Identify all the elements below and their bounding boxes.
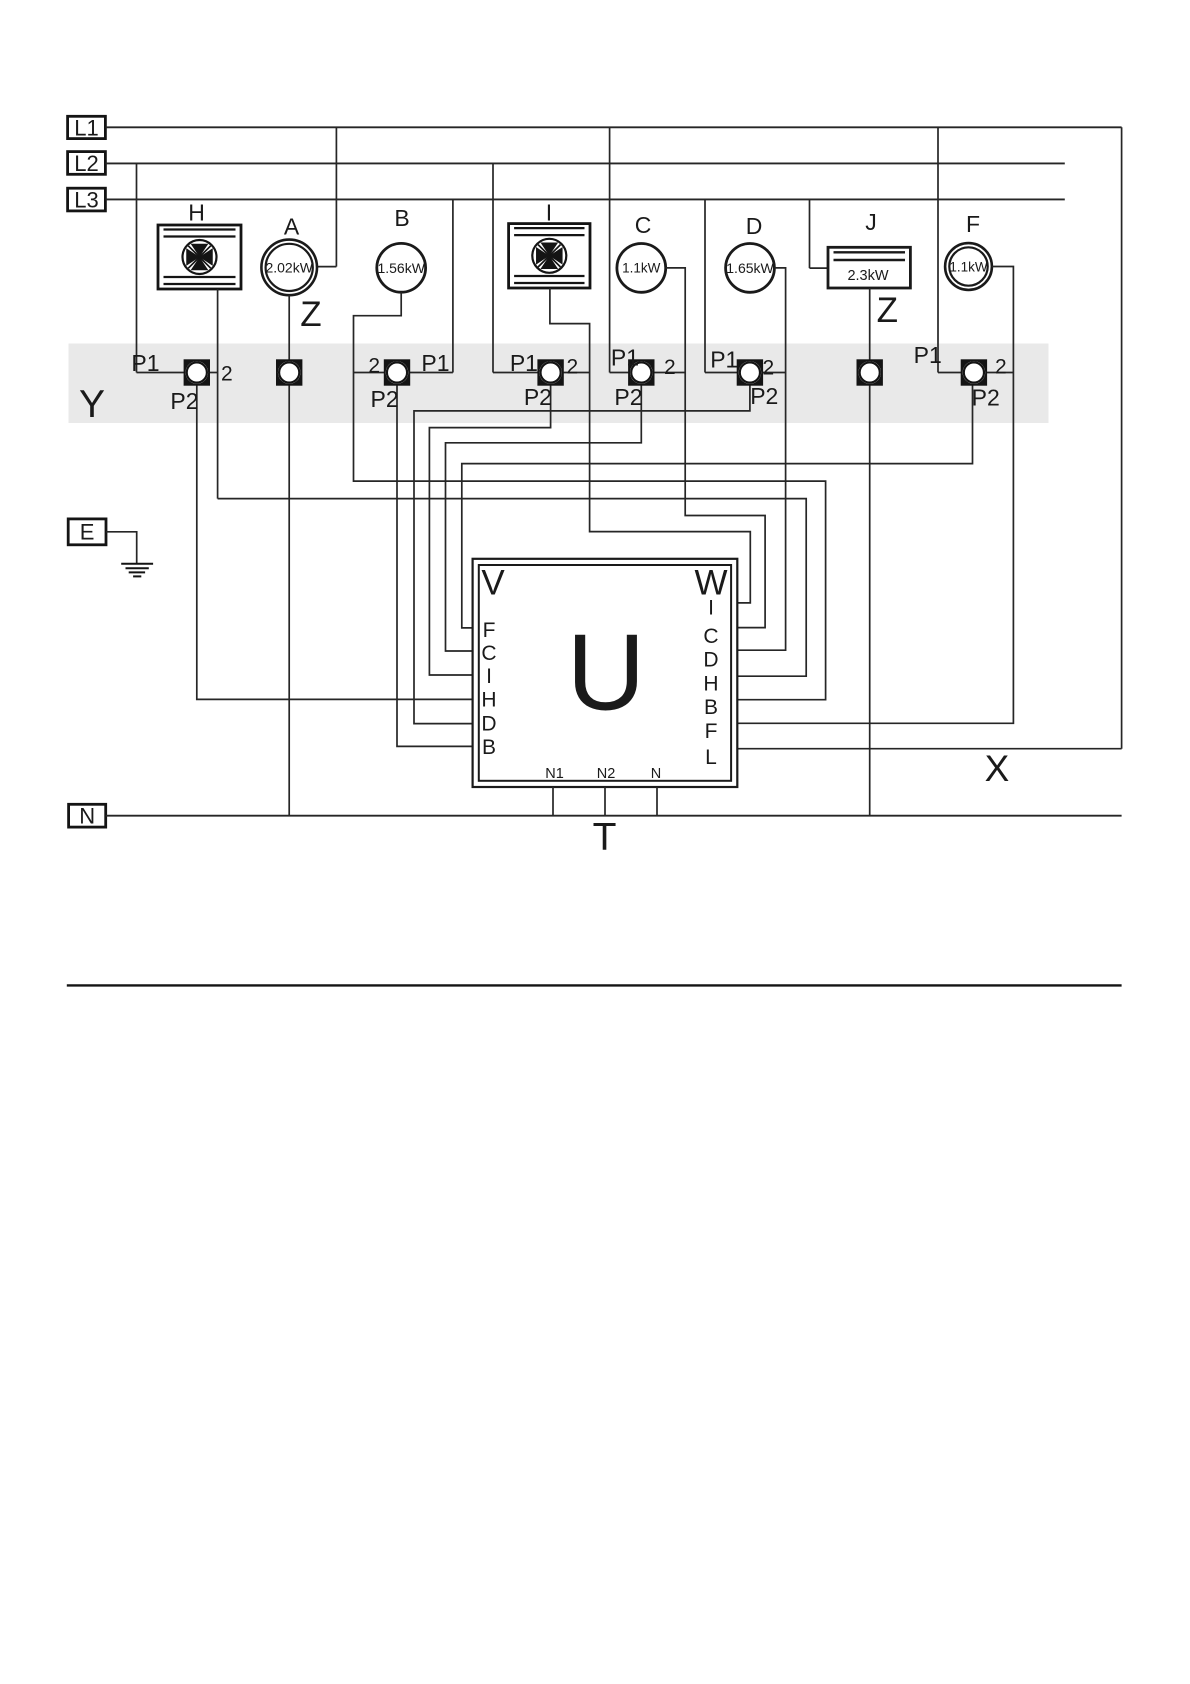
control unit U (timer/selector) (473, 559, 738, 787)
svg-text:P1: P1 (131, 350, 159, 376)
ground symbol (121, 564, 153, 577)
wire I load to U terminal I right (550, 288, 750, 603)
svg-text:N: N (651, 766, 661, 782)
wire C P2 to U terminal C left (446, 386, 642, 652)
svg-text:X: X (985, 748, 1010, 789)
wire H load to U terminal H right (218, 499, 807, 677)
wire B P2 to U terminal B left (397, 386, 473, 747)
heater B 1.56kW (377, 243, 426, 292)
switch contact C (628, 359, 654, 385)
svg-text:A: A (284, 214, 300, 240)
svg-text:1.56kW: 1.56kW (377, 260, 425, 276)
wire B load to U terminal B right (354, 292, 826, 700)
wire E to ground (106, 532, 137, 564)
wire C switch terminal 2 stub (654, 372, 685, 374)
svg-text:C: C (703, 625, 718, 648)
wire L3 to B switch P1 (452, 199, 454, 372)
svg-text:1.65kW: 1.65kW (726, 260, 774, 276)
heater A 2.02kW (261, 240, 317, 296)
wire D P2 to U terminal D left (414, 386, 750, 724)
svg-text:P1: P1 (421, 350, 449, 376)
svg-text:U: U (567, 611, 646, 733)
switch contact J (857, 359, 883, 385)
svg-text:F: F (966, 211, 980, 237)
svg-text:P2: P2 (614, 384, 642, 410)
svg-text:I: I (486, 665, 492, 688)
wire L1 to F switch P1 (937, 127, 939, 372)
svg-text:B: B (394, 205, 409, 231)
svg-text:P1: P1 (611, 345, 639, 371)
wire N2 to N rail (604, 787, 606, 816)
svg-text:J: J (865, 209, 877, 235)
wire D switch terminal 2 stub (763, 372, 786, 374)
switch contact B (384, 359, 410, 385)
svg-text:Z: Z (300, 295, 321, 334)
svg-text:L2: L2 (74, 151, 98, 176)
svg-text:P1: P1 (914, 342, 942, 368)
terminal box N (69, 804, 106, 829)
fan blades H (183, 240, 217, 274)
svg-text:P2: P2 (371, 386, 399, 412)
svg-text:L3: L3 (74, 187, 98, 212)
switch contact I (537, 359, 563, 385)
wire into U terminal L (737, 748, 1121, 750)
wire F switch terminal 2 stub (987, 372, 1014, 374)
svg-text:H: H (703, 673, 718, 696)
fan blades I (532, 239, 566, 273)
wire A to switch (288, 295, 290, 359)
rail L1 (105, 126, 1121, 128)
svg-text:H: H (188, 200, 205, 226)
svg-text:2: 2 (995, 356, 1007, 379)
wire into I switch P1 (493, 372, 538, 374)
svg-text:P2: P2 (524, 384, 552, 410)
svg-text:1.1kW: 1.1kW (622, 261, 661, 276)
rail N (106, 815, 1122, 817)
terminal box L3 (68, 187, 106, 212)
wire D load to U terminal D right (737, 268, 785, 650)
svg-text:I: I (708, 597, 714, 620)
wire L3 to D switch P1 (704, 199, 706, 372)
wire H P2 to U terminal H left (197, 386, 473, 700)
svg-text:P2: P2 (750, 383, 778, 409)
wire B switch terminal 2 stub (354, 372, 385, 374)
wire L2 to I switch P1 (492, 163, 494, 372)
wire into F switch P1 (938, 372, 961, 374)
wire into H switch P1 (137, 372, 185, 374)
terminal box E (68, 519, 106, 545)
wire into B switch P1 (410, 372, 453, 374)
separator rule (67, 984, 1122, 986)
svg-text:P1: P1 (710, 347, 738, 373)
svg-text:D: D (703, 649, 718, 672)
wire L1 right end down to X/L (1121, 127, 1123, 748)
svg-text:C: C (635, 212, 652, 238)
wire into C switch P1 (610, 372, 629, 374)
wire I P2 to U terminal I left (429, 386, 550, 676)
svg-text:N2: N2 (597, 766, 616, 782)
switch contact H (184, 359, 210, 385)
svg-text:P1: P1 (510, 350, 538, 376)
svg-text:N: N (79, 804, 95, 829)
svg-text:H: H (481, 689, 496, 712)
wire L1 down to A (335, 127, 337, 266)
svg-text:P2: P2 (170, 388, 198, 414)
selector band Y background (69, 344, 1049, 424)
heater D 1.65kW (726, 244, 775, 293)
wire L1 to C switch P1 (609, 127, 611, 372)
switch contact A (276, 359, 302, 385)
switch contact F (961, 359, 987, 385)
heater J 2.3kW (828, 247, 910, 288)
heater F 1.1kW (945, 243, 992, 290)
svg-text:D: D (746, 213, 763, 239)
svg-text:E: E (80, 520, 95, 545)
wire C load to U terminal C right (666, 268, 765, 628)
svg-text:2: 2 (221, 363, 233, 386)
wire H switch terminal 2 stub (210, 372, 218, 374)
wire J to switch (869, 288, 871, 360)
terminal box L1 (68, 115, 106, 140)
wire F load to U terminal F right (737, 267, 1013, 724)
svg-text:F: F (483, 619, 496, 642)
rail L2 (105, 162, 1064, 164)
svg-text:C: C (481, 642, 496, 665)
svg-text:P2: P2 (972, 385, 1000, 411)
rail L3 (105, 198, 1064, 200)
fan heater H (158, 225, 241, 289)
wire A circle to L1 drop (317, 266, 336, 268)
cooling fan I (509, 224, 590, 288)
wire J switch to N rail (869, 386, 871, 816)
svg-text:N1: N1 (545, 766, 564, 782)
wire L3 down to J (809, 199, 811, 268)
svg-text:L: L (705, 746, 717, 769)
svg-text:V: V (481, 564, 505, 603)
svg-text:Y: Y (79, 383, 105, 426)
svg-text:2.3kW: 2.3kW (847, 268, 888, 284)
svg-text:2: 2 (567, 356, 579, 379)
svg-text:L1: L1 (74, 115, 98, 140)
svg-text:2: 2 (664, 356, 676, 379)
wire H load down (217, 289, 219, 499)
svg-text:2.02kW: 2.02kW (265, 259, 313, 275)
switch contact D (737, 359, 763, 385)
wire into D switch P1 (705, 372, 737, 374)
wire N to N rail (656, 787, 658, 816)
wire into J heater left (810, 267, 829, 269)
svg-text:2: 2 (763, 357, 775, 380)
svg-text:B: B (482, 736, 496, 759)
heater C 1.1kW (617, 244, 666, 293)
terminal box L2 (68, 151, 106, 176)
svg-text:F: F (705, 720, 718, 743)
svg-text:1.1kW: 1.1kW (949, 259, 988, 274)
svg-text:B: B (704, 696, 718, 719)
svg-text:I: I (546, 200, 552, 226)
svg-text:T: T (593, 816, 617, 859)
svg-text:D: D (481, 713, 496, 736)
wire I switch terminal 2 stub (563, 372, 589, 374)
svg-text:2: 2 (368, 355, 380, 378)
svg-text:Z: Z (877, 291, 898, 330)
wire N1 to N rail (552, 787, 554, 816)
wire F P2 to U terminal F left (462, 386, 973, 628)
wire L2 to H switch P1 (136, 163, 138, 372)
wire A switch to N rail (288, 386, 290, 816)
